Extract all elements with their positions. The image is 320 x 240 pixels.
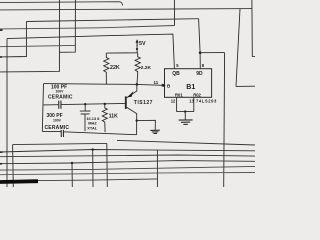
node reset junction — [184, 110, 186, 112]
svg-text:100V: 100V — [56, 89, 65, 93]
crystal Y1 — [80, 104, 91, 131]
svg-text:B1: B1 — [186, 84, 195, 91]
svg-text:CERAMIC: CERAMIC — [45, 125, 70, 131]
svg-text:XTAL: XTAL — [87, 126, 97, 131]
svg-text:9D: 9D — [196, 71, 203, 77]
svg-text:11: 11 — [154, 80, 159, 85]
svg-text:11K: 11K — [109, 113, 118, 119]
wire bottom bus 2 — [0, 150, 255, 153]
svg-text:R02: R02 — [193, 92, 201, 97]
wire left edge stub b — [0, 56, 2, 58]
wire vertical V3 — [236, 9, 255, 86]
pin B arrowhead — [163, 84, 166, 87]
wire node QD vertical to pin 8 — [199, 19, 201, 69]
wire vertical x26 — [0, 22, 26, 57]
wire vertical x13 — [12, 145, 15, 187]
transistor emitter arrowhead — [127, 91, 133, 97]
svg-text:CERAMIC: CERAMIC — [48, 95, 73, 101]
svg-text:74LS293: 74LS293 — [196, 99, 217, 104]
wire y46 — [0, 45, 75, 46]
transistor Q1 TIS127 base bar — [125, 96, 127, 109]
wire vertical x93 — [92, 150, 94, 187]
svg-text:5V: 5V — [139, 41, 146, 47]
ground (IC reset) — [179, 120, 193, 125]
op IC B1 74LS293 box — [165, 69, 212, 98]
wire top bus H1 — [0, 2, 123, 6]
wire reset stub — [184, 112, 186, 120]
wire +5V rail — [106, 52, 137, 54]
wire H_D to pin 5 — [7, 34, 174, 69]
wire vertical x75 — [59, 0, 75, 52]
wire L1 QD feedback — [26, 19, 198, 22]
wire vertical x7 — [6, 39, 8, 187]
wire bias line / osc box top to pin 11 — [44, 84, 163, 86]
svg-text:12: 12 — [171, 99, 176, 104]
svg-text:100V: 100V — [53, 118, 62, 122]
capacitor C 100PF plates — [59, 101, 61, 109]
node bus4 junction — [71, 162, 73, 164]
resistor 22K — [104, 53, 109, 84]
capacitor C 300PF plates — [61, 130, 63, 137]
node pin 8 junction — [199, 51, 202, 54]
svg-text:22K: 22K — [110, 65, 120, 71]
wire pin 8 to right — [200, 52, 225, 54]
wire osc bottom wire — [42, 131, 136, 134]
wire vertical V224 — [223, 53, 226, 187]
resistor 11K — [102, 104, 107, 132]
wire bottom heavy band — [0, 179, 38, 184]
wire bottom bus 5 — [0, 166, 255, 170]
svg-text:QB: QB — [172, 71, 180, 77]
wire L2 — [0, 26, 175, 29]
wire pin 13 — [193, 97, 195, 111]
svg-text:2.2K: 2.2K — [141, 65, 152, 71]
+5V supply arrow — [136, 39, 139, 47]
svg-text:TIS127: TIS127 — [134, 100, 153, 106]
wire vertical x157 — [156, 150, 158, 187]
wire emitter to ground — [137, 120, 156, 130]
node +5V junction — [136, 48, 138, 50]
node resistor 11K top junction — [104, 103, 106, 105]
wire bottom bus 1 left — [13, 143, 107, 144]
wire vertical V1 — [173, 0, 175, 26]
wire vertical x59 — [0, 0, 60, 72]
wire +5V stub — [136, 47, 138, 53]
wire bottom bus 7 — [0, 179, 158, 181]
wire reset join — [177, 111, 194, 113]
wire bottom bus 3 — [0, 155, 255, 157]
transistor collector lead — [127, 84, 137, 97]
wire vertical V4 right edge — [252, 0, 255, 57]
wire left edge stub d — [0, 163, 2, 165]
wire vertical x72 — [71, 163, 73, 187]
pin 11 arrowhead — [162, 84, 165, 87]
resistor 2.2K — [135, 53, 140, 85]
wire vertical x107 — [106, 143, 109, 187]
node emitter junction — [136, 119, 138, 121]
svg-text:R01: R01 — [175, 92, 183, 97]
node crystal top junction — [84, 103, 86, 105]
wire left edge stub a — [0, 29, 3, 31]
wire bottom bus 6 — [0, 173, 255, 175]
ground (transistor) — [150, 130, 160, 133]
wire bottom bus 1 right — [117, 140, 255, 145]
wire bottom bus 4 — [0, 161, 255, 164]
wire pin 12 — [176, 97, 178, 111]
wire top bus H2 — [0, 9, 252, 10]
node bus2 junction — [92, 148, 94, 150]
transistor emitter lead lower — [127, 107, 137, 134]
wire osc box left edge — [42, 84, 43, 132]
node collector junction — [136, 83, 139, 86]
wire left edge stub c — [0, 151, 3, 153]
wire osc top cap wire — [43, 103, 125, 105]
